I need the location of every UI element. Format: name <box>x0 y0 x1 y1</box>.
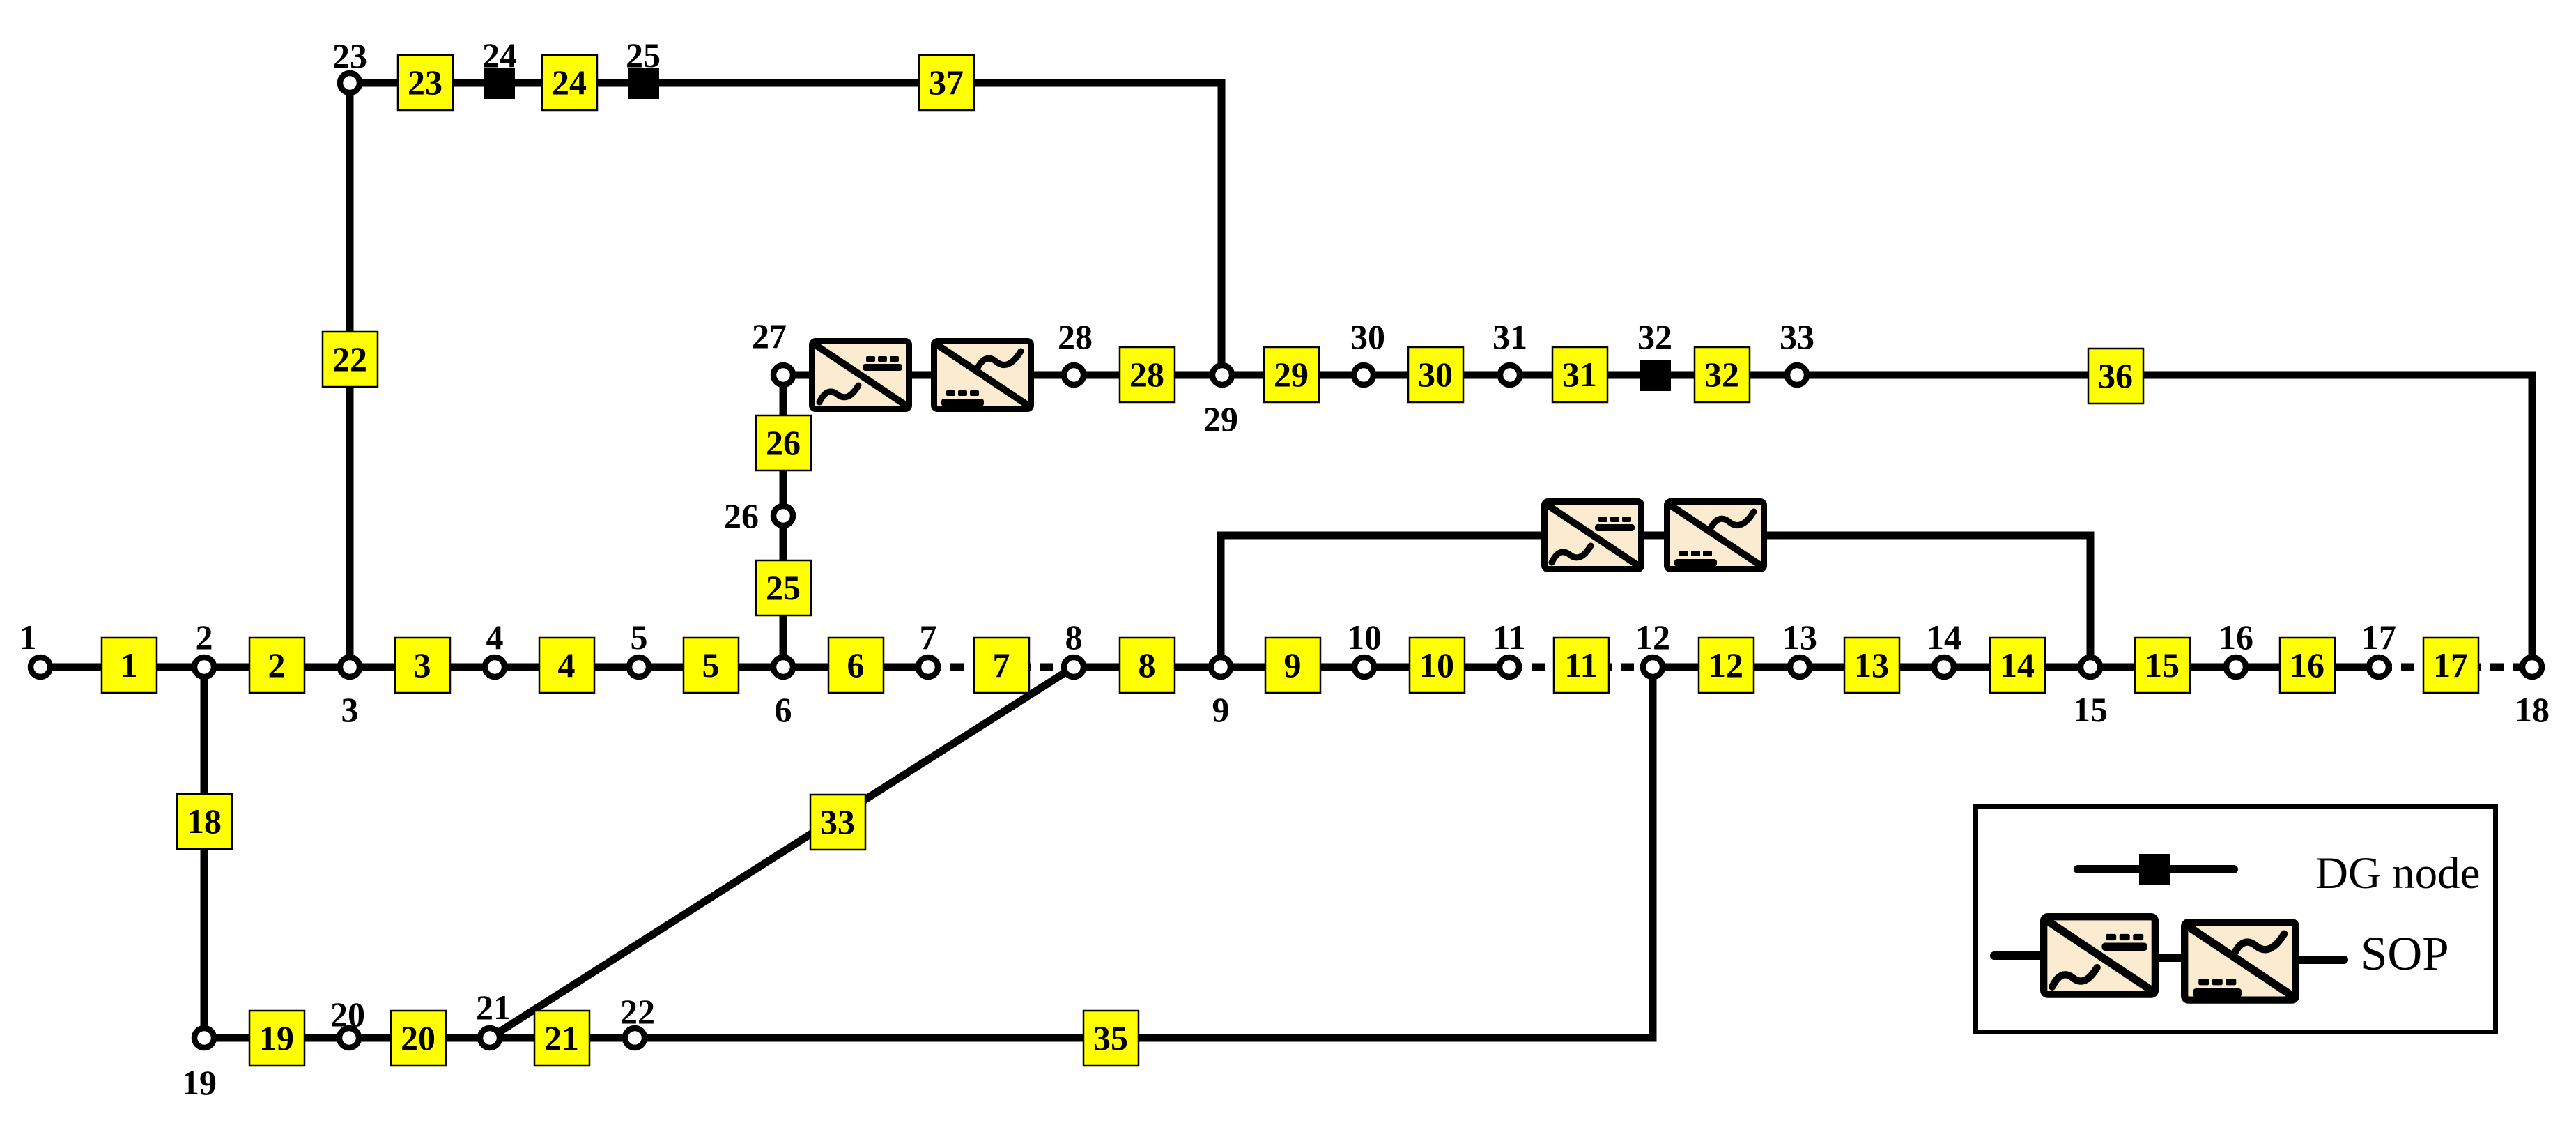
svg-text:10: 10 <box>1347 618 1382 657</box>
node 22 <box>625 1028 645 1048</box>
svg-text:11: 11 <box>1564 645 1597 684</box>
svg-text:21: 21 <box>544 1018 579 1057</box>
branch label box 2 <box>249 638 304 693</box>
svg-text:28: 28 <box>1129 355 1164 394</box>
svg-text:29: 29 <box>1203 399 1238 438</box>
wire branches 12-16 (node 12 to 17) <box>1653 664 2379 671</box>
legend SOP converter DC/AC <box>2184 922 2296 1000</box>
svg-text:5: 5 <box>702 645 720 684</box>
svg-text:15: 15 <box>2145 645 2180 684</box>
svg-text:32: 32 <box>1704 355 1739 394</box>
branch label box 22 <box>323 332 378 387</box>
svg-text:26: 26 <box>724 496 759 535</box>
svg-text:13: 13 <box>1854 645 1889 684</box>
wire branches 19-21 (node 19 to 22) <box>204 1034 635 1042</box>
svg-text:20: 20 <box>401 1018 435 1057</box>
svg-text:23: 23 <box>408 63 442 102</box>
svg-text:18: 18 <box>2515 690 2550 729</box>
branch label box 26 <box>756 415 811 471</box>
wire branch 23-24-25 and tie line 37 (node 23 to node 29) <box>350 83 1221 375</box>
svg-text:6: 6 <box>775 690 792 729</box>
branch label box 6 <box>828 638 884 693</box>
branch label box 24 <box>542 55 597 110</box>
svg-text:19: 19 <box>259 1018 294 1057</box>
svg-text:DG node: DG node <box>2315 848 2480 898</box>
svg-text:17: 17 <box>2433 645 2468 684</box>
branch label box 5 <box>684 638 739 693</box>
branch label box 19 <box>249 1011 304 1066</box>
svg-text:23: 23 <box>332 36 367 75</box>
svg-text:3: 3 <box>414 645 431 684</box>
branch label box 20 <box>391 1011 446 1066</box>
node 18 <box>2522 657 2542 677</box>
svg-text:16: 16 <box>2290 645 2324 684</box>
branch label box 21 <box>534 1011 589 1066</box>
svg-text:14: 14 <box>1927 618 1961 657</box>
svg-text:33: 33 <box>1780 317 1814 356</box>
wire main feeder branches 1-6 (nodes 1 to 7) <box>40 664 928 671</box>
svg-text:9: 9 <box>1284 645 1302 684</box>
svg-text:24: 24 <box>482 36 517 75</box>
svg-text:12: 12 <box>1709 645 1743 684</box>
legend DG node square <box>2139 854 2170 885</box>
svg-text:8: 8 <box>1065 618 1083 657</box>
node 6 <box>773 657 793 677</box>
node 27 <box>773 365 793 385</box>
SOP 2 converter DC/AC (box B, to node 15) <box>1667 502 1764 569</box>
branch label box 4 <box>539 638 594 693</box>
svg-text:2: 2 <box>268 645 286 684</box>
node 20 <box>339 1028 359 1048</box>
branch label box 31 <box>1552 347 1607 402</box>
node 15 <box>2081 657 2100 677</box>
svg-text:27: 27 <box>752 316 787 355</box>
wire SOP2 converter link <box>1643 532 1665 540</box>
svg-text:14: 14 <box>2000 645 2035 684</box>
branch label box 14 <box>1990 638 2045 693</box>
node 4 <box>485 657 504 677</box>
node 31 <box>1500 365 1520 385</box>
svg-text:17: 17 <box>2361 618 2396 657</box>
legend DG node wire <box>2078 865 2234 873</box>
SOP 1 converter DC/AC (box B near node 28) <box>934 342 1031 409</box>
legend SOP link wire <box>2159 954 2182 962</box>
svg-text:31: 31 <box>1562 355 1597 394</box>
branch label box 18 <box>177 794 232 849</box>
svg-text:19: 19 <box>182 1063 217 1102</box>
branch label box 36 <box>2088 349 2143 404</box>
wire SOP2 right leg (to node 15) <box>1766 535 2090 663</box>
wire tie line 35 (node 22 to node 12) <box>635 667 1653 1038</box>
branch label box 3 <box>395 638 450 693</box>
svg-text:9: 9 <box>1212 690 1230 729</box>
legend SOP left stub wire <box>1994 951 2042 960</box>
svg-text:2: 2 <box>196 618 213 657</box>
svg-text:32: 32 <box>1637 317 1672 356</box>
svg-text:22: 22 <box>620 992 655 1031</box>
branch label box 1 <box>102 638 157 693</box>
svg-text:37: 37 <box>929 63 964 102</box>
svg-text:7: 7 <box>993 645 1010 684</box>
node 1 <box>31 657 50 677</box>
wire SOP1 converter link <box>911 372 932 379</box>
node 17 <box>2369 657 2389 677</box>
wire node 27 to SOP1 converter <box>783 372 810 379</box>
svg-text:29: 29 <box>1274 355 1309 394</box>
node 16 <box>2226 657 2246 677</box>
wire branch 7 dashed (node 7 to 8) <box>928 664 1074 671</box>
node 8 <box>1064 657 1083 677</box>
svg-text:11: 11 <box>1493 618 1525 657</box>
svg-text:1: 1 <box>121 645 138 684</box>
node 21 <box>480 1028 500 1048</box>
branch label box 23 <box>398 55 453 110</box>
branch label box 15 <box>2135 638 2190 693</box>
DG node 25 (black square) <box>628 68 659 99</box>
branch label box 16 <box>2280 638 2335 693</box>
branch label box 30 <box>1408 347 1463 402</box>
svg-text:21: 21 <box>476 988 511 1027</box>
svg-text:28: 28 <box>1058 317 1093 356</box>
node 2 <box>194 657 214 677</box>
branch label box 13 <box>1844 638 1899 693</box>
svg-text:6: 6 <box>847 645 865 684</box>
branch label box 35 <box>1083 1011 1139 1066</box>
svg-text:16: 16 <box>2219 618 2253 657</box>
node 23 <box>340 73 360 93</box>
branch label box 29 <box>1264 347 1319 402</box>
svg-text:13: 13 <box>1782 618 1817 657</box>
svg-text:35: 35 <box>1093 1018 1128 1057</box>
branch label box 12 <box>1699 638 1754 693</box>
svg-text:4: 4 <box>558 645 576 684</box>
svg-text:10: 10 <box>1419 645 1454 684</box>
legend frame <box>1976 807 2496 1032</box>
svg-text:7: 7 <box>920 618 937 657</box>
svg-text:30: 30 <box>1350 317 1385 356</box>
legend SOP right stub wire <box>2299 956 2344 964</box>
node 7 <box>918 657 938 677</box>
branch label box 17 <box>2423 638 2478 693</box>
svg-text:36: 36 <box>2098 356 2133 395</box>
svg-text:25: 25 <box>626 36 661 75</box>
branch label box 10 <box>1410 638 1465 693</box>
svg-text:31: 31 <box>1493 317 1527 356</box>
node 11 <box>1499 657 1519 677</box>
wire branch 18 (node 2 down to node 19) <box>201 667 208 1038</box>
node 33 <box>1787 365 1807 385</box>
branch label box 32 <box>1695 347 1750 402</box>
wire row 27-33 and tie line 36 (SOP1 to node 18) <box>1033 375 2532 667</box>
wire tie line 33 diagonal (node 21 to node 8) <box>490 667 1074 1038</box>
branch label box 25 <box>756 560 811 615</box>
svg-text:22: 22 <box>332 339 367 378</box>
SOP 1 converter AC/DC (box A near node 27) <box>812 342 909 409</box>
node 28 <box>1064 365 1083 385</box>
node 10 <box>1355 657 1374 677</box>
svg-text:12: 12 <box>1635 618 1670 657</box>
SOP 2 converter AC/DC (box A, from node 9) <box>1545 502 1642 569</box>
svg-text:24: 24 <box>552 63 587 102</box>
node 14 <box>1934 657 1954 677</box>
node 29 <box>1212 365 1232 385</box>
node 26 <box>773 506 793 526</box>
svg-text:5: 5 <box>631 618 648 657</box>
DG node 32 (black square) <box>1640 360 1671 391</box>
branch label box 8 <box>1120 638 1175 693</box>
branch label box 33 <box>810 795 865 850</box>
svg-text:20: 20 <box>330 995 365 1034</box>
node 19 <box>194 1028 214 1048</box>
svg-text:1: 1 <box>20 618 37 657</box>
branch label box 28 <box>1120 347 1175 402</box>
wire branch 11 dashed (node 11 to 12) <box>1509 664 1653 671</box>
wire branches 25-26 (node 6 up to node 27) <box>780 375 787 663</box>
svg-text:33: 33 <box>820 802 855 841</box>
node 9 <box>1211 657 1231 677</box>
svg-text:25: 25 <box>766 568 801 607</box>
legend SOP converter AC/DC <box>2044 917 2155 994</box>
svg-text:30: 30 <box>1418 355 1453 394</box>
wire branch 22 (node 3 up to node 23) <box>346 83 354 663</box>
svg-text:8: 8 <box>1139 645 1156 684</box>
node 30 <box>1354 365 1373 385</box>
branch label box 7 <box>974 638 1029 693</box>
DG node 24 (black square) <box>484 68 515 99</box>
svg-text:15: 15 <box>2073 690 2108 729</box>
node 13 <box>1790 657 1810 677</box>
svg-text:26: 26 <box>766 423 801 462</box>
node 3 <box>340 657 360 677</box>
wire branches 8-10 (node 8 to 11) <box>1074 664 1509 671</box>
node 5 <box>629 657 649 677</box>
branch label box 37 <box>919 55 974 110</box>
svg-text:4: 4 <box>486 618 504 657</box>
svg-text:SOP: SOP <box>2361 927 2449 980</box>
svg-text:3: 3 <box>341 690 359 729</box>
svg-text:18: 18 <box>187 802 222 841</box>
wire branch 17 dashed (node 17 to 18) <box>2379 664 2532 671</box>
branch label box 11 <box>1554 638 1609 693</box>
node 12 <box>1643 657 1663 677</box>
wire SOP2 left leg (node 9 up) <box>1221 535 1543 663</box>
branch label box 9 <box>1265 638 1320 693</box>
